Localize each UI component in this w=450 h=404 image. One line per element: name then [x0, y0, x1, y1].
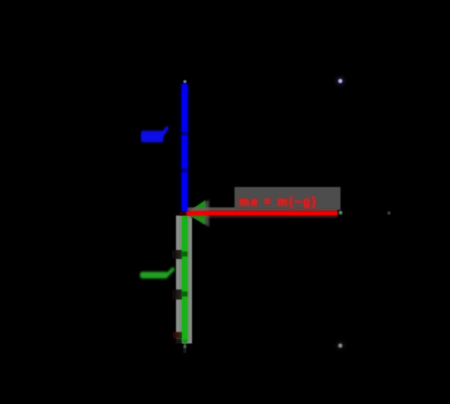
blue vector line (upward) glow: [181, 84, 188, 211]
red vector line (rightward) glow: [187, 211, 338, 216]
grey ghost band (negative y direction) behind green vector: [176, 216, 192, 344]
dark maroon tick label blob y=-3: [173, 332, 183, 339]
thin grey ghost band along top of red vector: [186, 207, 337, 211]
dark tick notch y=-1 on grey band: [172, 250, 186, 259]
dark pinch on green line at tick y=-1: [182, 252, 188, 257]
teal dot at end of red vector: [339, 211, 343, 215]
faint grey streak below green tip: [183, 348, 186, 354]
green vector line (downward): [182, 216, 188, 340]
dark pinch on green line at tick y=-2: [182, 292, 188, 297]
faint grey trail below red vector: [190, 216, 337, 218]
lavender dot marker top right: [337, 77, 344, 84]
green vector arrow tip (bottom): [181, 340, 188, 346]
dark tick label blob y=-2: [173, 290, 187, 300]
dark maroon blip left of origin: [180, 212, 187, 216]
red vector line (rightward): [187, 211, 338, 215]
grey dot under green tip: [183, 345, 186, 348]
blue vector line (upward): [182, 84, 188, 211]
grey ghost arrowhead behind green origin arrowhead: [189, 200, 209, 228]
green arrowhead pointing left at origin: [186, 200, 206, 225]
green vector line (downward) glow: [182, 216, 188, 340]
green label: -mg: [140, 269, 173, 278]
dark notch on blue line (tick y=3): [181, 132, 189, 136]
dark notch on blue line (tick y=2): [181, 169, 189, 173]
grey label box behind red equation: [235, 187, 341, 210]
grey dot marker bottom right: [337, 342, 344, 349]
faint grey dot on x axis right: [387, 211, 390, 214]
blue label: ma: [141, 128, 167, 142]
svg-text:ma = m(−g): ma = m(−g): [239, 197, 317, 209]
black clip on left of grey band bottom: [175, 339, 182, 346]
pale dot at blue arrow tip: [183, 80, 186, 83]
